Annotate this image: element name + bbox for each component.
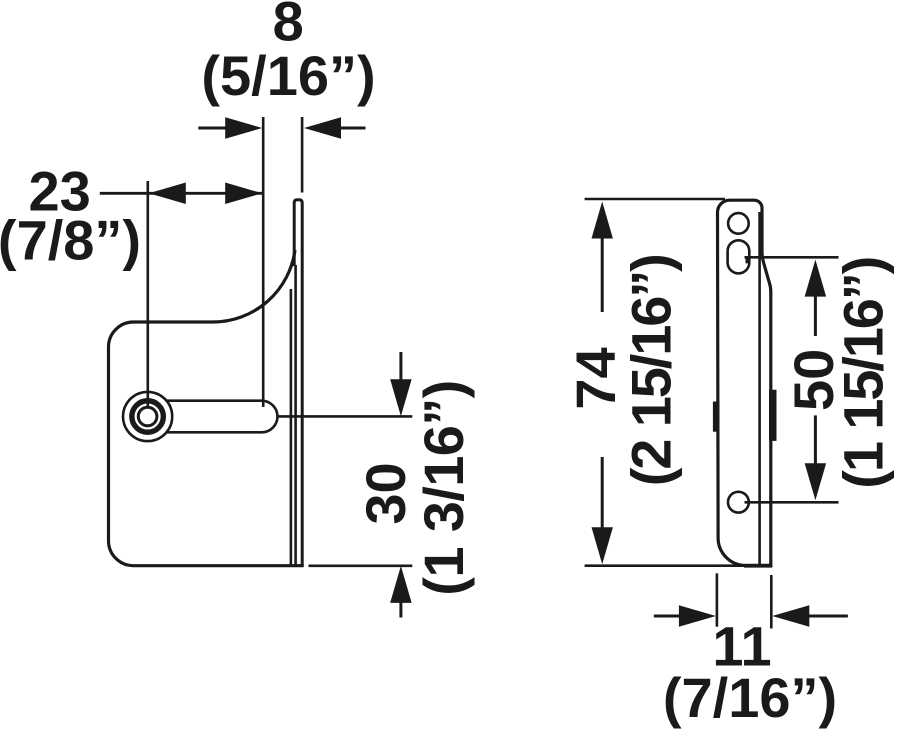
- leader line bottom hole (50 dim bottom): [745, 501, 839, 504]
- dimension 50: up arrow: [805, 260, 827, 297]
- dimension 11: left arrow: [654, 615, 680, 618]
- dimension 23: line and arrows: [100, 192, 262, 195]
- right view: left tab: [713, 402, 720, 432]
- svg-text:(1 15/16”): (1 15/16”): [832, 256, 895, 489]
- extension line E2 (8/23 dim, slot end): [262, 117, 265, 407]
- left view: flange lip (top hook): [294, 200, 302, 566]
- right view: right tab: [769, 390, 777, 441]
- right view: bottom edge (thick): [744, 564, 772, 568]
- right view: bottom hole: [728, 492, 749, 513]
- left view: grommet outer circle: [123, 392, 172, 441]
- dimension 11: right arrow: [809, 615, 848, 618]
- dimension 74: down arrow: [592, 527, 613, 564]
- leader tick at slot: [745, 257, 748, 263]
- left view: inner face line B: [294, 265, 297, 565]
- svg-text:74: 74: [564, 347, 627, 409]
- leader line slot centre (50 dim top): [745, 256, 839, 259]
- dimension 30: bottom arrow (points up): [399, 602, 402, 617]
- extension line 74 bottom: [585, 564, 772, 567]
- right view: top hole: [728, 213, 749, 234]
- svg-text:(7/8”): (7/8”): [0, 209, 141, 272]
- extension line E3 (8 dim, flange face): [301, 117, 304, 193]
- right view: slot hole (stadium): [728, 240, 750, 273]
- svg-text:30: 30: [354, 462, 417, 524]
- svg-text:(1 3/16”): (1 3/16”): [412, 380, 475, 596]
- dimension 8: right arrow: [341, 127, 366, 130]
- left view: grommet inner ring: [138, 407, 157, 426]
- left view: grommet thick ring: [132, 401, 164, 433]
- right view: plate outline: [718, 200, 771, 565]
- left view: inner face line A: [290, 289, 293, 565]
- extension line 74 top: [585, 198, 725, 201]
- extension line 11 left: [716, 573, 719, 626]
- dimension 8: left arrow: [198, 127, 226, 130]
- right view: inner face line: [758, 212, 761, 564]
- extension line 11 right: [770, 575, 773, 629]
- svg-text:(5/16”): (5/16”): [201, 44, 375, 107]
- svg-text:(2 15/16”): (2 15/16”): [620, 253, 683, 486]
- left view: slot (stadium): [148, 401, 278, 433]
- svg-text:(7/16”): (7/16”): [663, 666, 837, 729]
- dimension 74: up arrow: [592, 202, 613, 239]
- dimension 50: down arrow: [805, 463, 827, 500]
- leader line slot centre (30 dim top): [277, 415, 412, 418]
- dimension 30: top arrow (points down): [399, 352, 402, 380]
- left view: bracket body outline: [109, 250, 304, 566]
- extension line bottom (30 dim): [309, 564, 413, 567]
- extension line E1 (23 dim, hole centre): [147, 181, 150, 406]
